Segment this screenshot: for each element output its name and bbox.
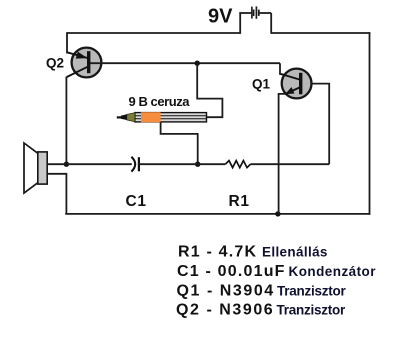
wire Q1 base: [302, 84, 329, 165]
speaker SP1: [24, 143, 47, 193]
wire pencil lower tap: [161, 122, 198, 165]
wire bottom rail: [65, 213, 370, 215]
svg-text:Tranzisztor: Tranzisztor: [277, 303, 347, 318]
svg-text:Kondenzátor: Kondenzátor: [289, 264, 377, 279]
wire speaker top terminal to C1: [47, 163, 132, 165]
pencil 9B graphite resistor: [117, 112, 207, 122]
junction mid wire / pencil lower tap: [195, 162, 200, 167]
wire battery right riser: [270, 13, 272, 34]
junction bottom rail / Q1 emitter: [275, 211, 280, 216]
svg-text:Q2: Q2: [46, 56, 64, 71]
junction speaker top / Q2 collector: [64, 162, 69, 167]
svg-text:R1 - 4.7K: R1 - 4.7K: [178, 244, 257, 261]
wire R1 to Q1 base riser: [251, 163, 330, 165]
wire Q2 collector riser: [65, 77, 67, 165]
svg-text:Tranzisztor: Tranzisztor: [277, 284, 347, 299]
svg-text:Q2 - N3906: Q2 - N3906: [176, 302, 274, 319]
wire Q2 base to Q1 collector: [90, 62, 280, 64]
transistor Q1 (NPN): [281, 69, 312, 99]
wire battery left riser: [239, 13, 241, 34]
svg-text:Q1 - N3904: Q1 - N3904: [177, 283, 275, 300]
svg-text:C1 - 00.01uF: C1 - 00.01uF: [177, 263, 286, 280]
resistor R1: [225, 161, 250, 168]
battery B1: [239, 6, 271, 18]
wire pencil upper tap: [197, 63, 222, 117]
svg-text:Q1: Q1: [252, 77, 271, 92]
svg-text:R1: R1: [229, 193, 250, 210]
wire Q1 emitter down to bottom rail: [279, 94, 286, 214]
capacitor C1: [131, 157, 139, 172]
transistor Q2 (PNP): [67, 48, 102, 78]
wire top rail left segment: [67, 32, 240, 34]
wire top rail right segment: [271, 32, 370, 34]
svg-text:C1: C1: [126, 193, 147, 210]
wire speaker bottom terminal: [47, 174, 66, 214]
svg-text:9V: 9V: [208, 5, 233, 27]
svg-text:Ellenállás: Ellenállás: [262, 245, 328, 260]
wire right rail: [369, 32, 371, 215]
wire C1 to R1: [139, 163, 226, 165]
wire Q2 emitter riser: [66, 32, 68, 53]
junction Q2 base / pencil upper tap: [195, 61, 200, 66]
svg-text:9 B ceruza: 9 B ceruza: [129, 94, 191, 109]
wire Q1 collector bend: [280, 63, 284, 75]
